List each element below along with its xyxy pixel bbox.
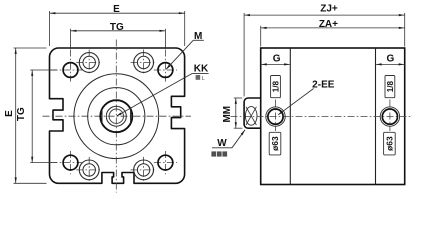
svg-text:ø63: ø63: [384, 136, 394, 151]
counterbore hole 2 centerlines: [131, 50, 157, 76]
label M leader: [193, 39, 204, 41]
counterbore hole 4 inner: [137, 164, 149, 176]
bore size box ø63 (2): [384, 132, 396, 155]
svg-text:KK: KK: [194, 64, 209, 75]
dimension TG (left): [30, 69, 57, 71]
bearing housing circle: [88, 88, 145, 145]
label W leader: [232, 130, 245, 148]
piston rod (side): [244, 98, 261, 128]
mounting hole TG 2: [158, 63, 173, 78]
svg-text:TG: TG: [110, 22, 124, 33]
KK thread circle inner: [109, 109, 123, 123]
side view horizontal centerline: [231, 116, 411, 118]
label KK leader: [192, 72, 208, 74]
KK thread circle outer: [106, 106, 126, 126]
counterbore hole 2 inner: [137, 56, 149, 68]
rod flat ellipse: [245, 107, 257, 126]
counterbore hole 1 outer: [79, 53, 99, 73]
mounting hole TG 2 centerlines: [154, 50, 177, 82]
dimension E (left): [14, 47, 47, 49]
svg-text:E: E: [113, 4, 120, 15]
counterbore hole 1 centerlines: [76, 50, 102, 76]
dimension MM: [234, 97, 243, 99]
counterbore hole 1 inner: [83, 56, 95, 68]
port 1 outer circle: [266, 107, 285, 126]
port 2 thread circle: [382, 109, 397, 124]
mounting hole TG 3: [63, 155, 78, 170]
label 2-EE leader: [278, 89, 313, 115]
rear cap line: [375, 48, 377, 185]
svg-text:1/8: 1/8: [386, 80, 395, 92]
svg-text:G: G: [387, 53, 395, 64]
svg-text:ø63: ø63: [270, 136, 280, 151]
piston rod circle (thick): [100, 100, 132, 132]
svg-text:ZJ+: ZJ+: [320, 3, 338, 14]
counterbore hole 2 outer: [134, 53, 154, 73]
counterbore hole 3 inner: [83, 164, 95, 176]
dimension ZA+: [260, 26, 262, 47]
dimension TG (top): [70, 29, 72, 49]
side view body: [261, 48, 405, 185]
port 1 thread circle: [268, 109, 283, 124]
dimension E (top): [49, 11, 51, 46]
dimension ZJ+: [243, 13, 245, 97]
svg-text:MM: MM: [222, 106, 233, 123]
head cap line: [289, 48, 291, 185]
counterbore hole 3 centerlines: [76, 157, 102, 183]
dimension G (right): [376, 63, 405, 65]
rod wrench flats: [101, 109, 103, 124]
svg-text:W: W: [217, 138, 227, 149]
mounting hole TG 4 centerlines: [154, 151, 177, 174]
front view vertical centerline: [115, 40, 117, 193]
port 2 outer circle: [380, 107, 399, 126]
label W caption (two-flat width): [211, 151, 216, 156]
label KK depth note: [196, 75, 201, 80]
dimension G (left): [261, 63, 291, 65]
svg-text:TG: TG: [16, 107, 27, 121]
rod flat cross: [246, 107, 256, 125]
port size box 1/8 (1): [271, 76, 281, 98]
port size box 1/8 (2): [385, 76, 395, 98]
port 2 centerline: [389, 100, 391, 132]
front view body outline: [50, 48, 185, 183]
svg-text:M: M: [194, 31, 202, 42]
front view horizontal centerline: [43, 115, 192, 117]
bore size box ø63 (1): [269, 132, 281, 155]
svg-text:G: G: [273, 53, 281, 64]
mounting hole TG 3 centerlines: [51, 151, 83, 174]
svg-text:L: L: [202, 76, 205, 82]
svg-text:E: E: [4, 110, 15, 117]
svg-text:ZA+: ZA+: [319, 19, 338, 30]
svg-text:1/8: 1/8: [272, 80, 281, 92]
counterbore hole 4 outer: [134, 160, 154, 180]
counterbore hole 4 centerlines: [131, 157, 157, 183]
mounting hole TG 1 centerlines: [51, 50, 83, 82]
counterbore hole 3 outer: [79, 160, 99, 180]
mounting hole TG 1: [63, 63, 78, 78]
mounting hole TG 4: [158, 155, 173, 170]
bore circle (outer): [74, 74, 159, 159]
svg-text:2-EE: 2-EE: [312, 80, 335, 91]
port 1 centerline: [275, 100, 277, 132]
